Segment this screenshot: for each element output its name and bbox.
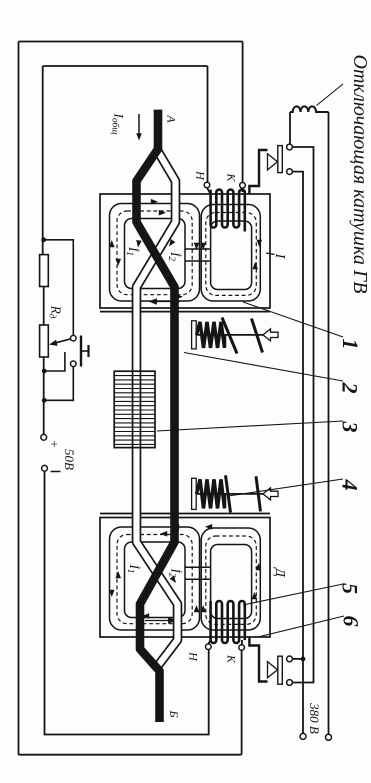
terminal: 50V minus: [42, 465, 48, 471]
svg-text:Б: Б: [167, 709, 181, 717]
label minus: [51, 471, 61, 473]
lead to terminal H of coil II: [208, 640, 210, 644]
svg-text:50В: 50В: [62, 449, 77, 470]
flux arrows core II centre limb: [194, 605, 200, 612]
svg-text:5: 5: [337, 583, 362, 594]
flux arrow core I bottom yoke (left, with tail): [152, 301, 180, 303]
svg-text:К: К: [224, 654, 238, 664]
wire: junction to slider blade: [44, 352, 65, 371]
terminal: 50V plus: [41, 434, 47, 440]
flux arrows core II left limb: [109, 590, 115, 597]
core left ring flux dashed line: [117, 211, 192, 295]
wire: contact1 upper to long wire to contact2 lower: [292, 147, 313, 683]
core right window edge: [211, 221, 252, 290]
contact assembly of relay I: bracket: [249, 150, 267, 194]
wire: outer supply loop, top rail: [19, 41, 243, 43]
core right ring flux dashed line: [206, 213, 256, 296]
relay I contact spring assembly: lever arm 2: [252, 319, 263, 353]
conductor I2 white core: [137, 152, 178, 668]
svg-text:Отключающая катушка ГВ: Отключающая катушка ГВ: [349, 55, 371, 294]
contact 2 movable plate: [278, 656, 283, 684]
svg-text:+: +: [47, 440, 62, 447]
svg-text:İ2: İ2: [166, 567, 183, 577]
wire: contact2 upper terminal stub: [292, 658, 303, 660]
relay II armature plate: [100, 513, 270, 515]
wire: R1 to Rd: [43, 287, 45, 326]
core left window edge: [125, 219, 186, 289]
contact 1 fixed terminal lower: [287, 169, 293, 175]
leader line callout 1: [243, 302, 343, 337]
wire: trip coil left lead down to contact 1 upper terminal: [289, 112, 291, 144]
contact 2 fixed terminal lower: [287, 680, 293, 686]
relay I contact spring assembly: lever arm 1: [222, 318, 237, 354]
relay I contact spring assembly: force direction outline arrow: [263, 329, 278, 341]
relay II contact spring assembly: helical spring: [197, 479, 225, 508]
relay II contact spring assembly: force direction outline arrow: [263, 488, 278, 500]
svg-text:1: 1: [338, 339, 363, 350]
svg-text:I: I: [272, 253, 287, 260]
leader line callout 2: [184, 353, 343, 382]
node: junction B: [42, 398, 47, 403]
contact 2 fixed terminal upper: [287, 656, 293, 662]
svg-text:К: К: [224, 173, 238, 183]
terminal K coil II: [239, 645, 245, 651]
magnetic shunt bridge between windows: [185, 248, 211, 250]
wire: outer loop left rail: [18, 42, 20, 755]
trip coil (Otklyuchayushchaya katushka GV): [290, 106, 329, 112]
svg-text:İ1: İ1: [125, 563, 142, 573]
magnetic shunt bridge between windows: [185, 566, 211, 568]
flux arrows core II top yoke: [172, 524, 179, 530]
winding H-K of relay II: [211, 601, 245, 643]
contact 2 pusher wedge: [268, 662, 278, 678]
leader line callout 6: [258, 616, 344, 637]
terminal: 380V right: [326, 734, 332, 740]
flux arrow core I top yoke: [151, 199, 158, 205]
svg-text:Н: Н: [186, 651, 200, 662]
contact terminal (test button) upper: [71, 335, 77, 341]
relay I contact spring assembly: helical spring: [197, 322, 225, 348]
wire: inner loop drop to terminal H of coil I: [207, 66, 209, 182]
terminal H coil II: [206, 644, 212, 650]
svg-text:6: 6: [338, 616, 363, 627]
core right ring flux dashed line: [206, 536, 256, 624]
svg-text:İ1: İ1: [124, 246, 141, 256]
wire: terminal K of coil II down to bottom rail: [241, 650, 243, 754]
terminal: 380V left: [300, 733, 306, 739]
node: junction dot below Rd: [42, 369, 47, 374]
svg-text:2: 2: [337, 382, 362, 394]
button actuator stem: [81, 350, 89, 352]
core left ring flux dashed line: [117, 535, 192, 624]
core left window edge: [125, 542, 186, 618]
lead to terminal H of coil I: [207, 188, 210, 193]
wire: outer loop right drop to terminal K of coil I: [242, 42, 244, 183]
load resistor grid (callout 3): [114, 371, 155, 447]
wire: Rd to junction B: [43, 357, 45, 400]
svg-text:4: 4: [337, 479, 362, 491]
relay I contact spring assembly: push rod through spring: [197, 334, 264, 336]
svg-text:3: 3: [337, 421, 362, 433]
wire: tap branch from junction A down right side: [44, 240, 74, 336]
contact 1 fixed terminal upper: [287, 144, 293, 150]
core right window edge: [211, 545, 252, 619]
relay I armature plate: [100, 311, 270, 313]
conductor I1 (solid bus bar A-B): [137, 110, 175, 722]
leader line from caption to trip coil: [317, 84, 344, 106]
node: junction A top of resistor chain: [41, 237, 46, 242]
resistor Rd (adjustable): [40, 325, 49, 357]
winding H-K of relay I: [211, 190, 245, 232]
wire: inner control loop top rail: [43, 65, 208, 67]
relay I magnetic core body: [100, 194, 270, 308]
wire: outer loop bottom rail: [19, 754, 242, 756]
core right ring outer edge: [201, 528, 260, 630]
leader line callout 5: [243, 584, 343, 605]
wire: junction B to + terminal: [43, 400, 45, 434]
relay II magnetic core body: [100, 518, 270, 638]
relay II contact spring assembly: lever arm 1: [226, 475, 231, 512]
terminal K coil I: [240, 183, 246, 189]
flux arrow core II bottom yoke dashed (left): [142, 613, 149, 619]
flux arrows core I left limb: [109, 240, 115, 247]
contact 1 pusher wedge: [268, 154, 278, 170]
leader line callout 3: [157, 421, 343, 431]
wire: minus terminal down, across bottom, up to H of coil II: [45, 471, 209, 734]
relay II contact spring assembly: lever arm 2: [256, 476, 261, 511]
conductor I2 (outlined bus bar) casing: [137, 152, 178, 668]
svg-text:380 В: 380 В: [307, 702, 322, 734]
svg-text:Н: Н: [193, 170, 207, 181]
core left ring outer edge: [110, 527, 200, 630]
svg-text:Iобщ: Iобщ: [109, 113, 126, 135]
svg-text:İ2: İ2: [166, 251, 183, 261]
core left ring outer edge: [110, 204, 200, 302]
lead to terminal K of coil I: [242, 188, 244, 192]
svg-text:Rд: Rд: [47, 305, 63, 319]
label I (relay I): [266, 253, 275, 255]
relay II contact spring assembly: spring seat bar: [192, 478, 197, 509]
node: junction of contact2 upper with 380V left wire: [301, 657, 306, 662]
flux arrows core I right limb (opposing): [257, 240, 263, 247]
flux arrows core I centre limb: [194, 243, 200, 250]
core right ring outer edge: [201, 205, 260, 302]
flux arrow core I bottom yoke dashed (right): [176, 294, 183, 300]
wire: inner loop left drop to resistor chain: [42, 66, 44, 255]
lead to terminal K of coil II: [241, 640, 243, 645]
contact blade of test button: [80, 336, 82, 367]
relay II contact spring assembly: push rod through spring: [197, 493, 264, 495]
contact 1 movable plate: [278, 146, 283, 173]
leader line callout 4: [228, 479, 343, 496]
svg-text:А: А: [164, 114, 178, 123]
flux arrow core II bottom yoke (right, with tail): [145, 620, 173, 622]
contact terminal (test button) lower: [71, 361, 77, 367]
wire: contact1 lower down to 380V left terminal: [292, 172, 303, 737]
contact assembly of relay II: bracket: [249, 637, 267, 682]
flux arrows core II right limb: [252, 592, 258, 599]
resistor R1 (fixed ballast): [40, 255, 49, 287]
wire: trip coil right lead down to 380V right terminal: [328, 112, 330, 734]
svg-text:Д: Д: [273, 566, 288, 578]
wire: lower button terminal to junction B: [44, 367, 73, 401]
rheostat slider arrow into Rd: [52, 339, 71, 344]
relay I contact spring assembly: spring seat bar: [192, 321, 197, 349]
terminal H coil I: [204, 182, 210, 188]
